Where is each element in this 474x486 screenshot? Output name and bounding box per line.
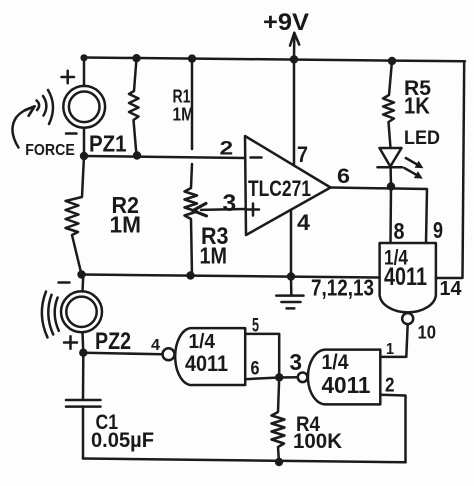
svg-text:9: 9 bbox=[433, 217, 443, 243]
svg-text:FORCE: FORCE bbox=[25, 142, 75, 159]
svg-text:1/4: 1/4 bbox=[189, 331, 216, 353]
svg-text:3: 3 bbox=[223, 190, 237, 217]
svg-text:7: 7 bbox=[297, 142, 308, 167]
svg-text:1M: 1M bbox=[110, 212, 142, 238]
svg-text:6: 6 bbox=[337, 165, 350, 188]
svg-text:TLC271: TLC271 bbox=[248, 176, 311, 201]
svg-text:1M: 1M bbox=[200, 243, 228, 269]
svg-text:LED: LED bbox=[404, 128, 440, 149]
svg-text:1M: 1M bbox=[173, 104, 195, 125]
svg-text:4: 4 bbox=[151, 337, 160, 354]
svg-text:14: 14 bbox=[440, 278, 463, 300]
svg-text:4011: 4011 bbox=[384, 263, 427, 291]
svg-text:5: 5 bbox=[252, 315, 259, 337]
svg-text:7,12,13: 7,12,13 bbox=[311, 275, 374, 301]
svg-text:8: 8 bbox=[394, 218, 405, 244]
svg-text:2: 2 bbox=[220, 139, 234, 160]
svg-text:4011: 4011 bbox=[322, 372, 371, 398]
svg-text:3: 3 bbox=[290, 349, 303, 375]
svg-text:+9V: +9V bbox=[263, 9, 309, 36]
svg-text:4: 4 bbox=[297, 210, 311, 235]
svg-text:1K: 1K bbox=[404, 93, 430, 119]
svg-text:100K: 100K bbox=[293, 430, 342, 453]
svg-text:1: 1 bbox=[386, 341, 394, 358]
svg-text:PZ2: PZ2 bbox=[95, 328, 131, 355]
svg-text:6: 6 bbox=[251, 358, 260, 380]
svg-text:2: 2 bbox=[385, 375, 395, 397]
svg-text:10: 10 bbox=[418, 323, 437, 343]
svg-text:1/4: 1/4 bbox=[322, 351, 349, 374]
svg-text:PZ1: PZ1 bbox=[89, 131, 127, 157]
svg-text:0.05µF: 0.05µF bbox=[91, 429, 154, 452]
svg-text:4011: 4011 bbox=[185, 351, 228, 376]
